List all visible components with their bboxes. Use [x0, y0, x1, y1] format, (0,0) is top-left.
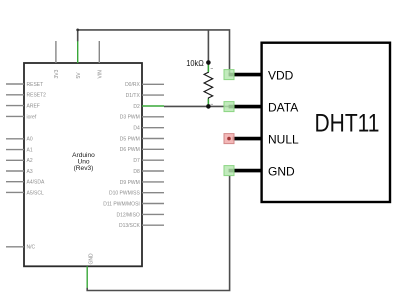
junction node at resistor top	[206, 60, 211, 65]
svg-text:D7: D7	[133, 158, 140, 164]
pin D8 (Arduino right)	[133, 169, 164, 175]
pin A0 (Arduino left)	[6, 137, 33, 143]
svg-text:5V: 5V	[76, 72, 82, 79]
svg-text:RESET2: RESET2	[27, 93, 47, 99]
svg-text:ioref: ioref	[27, 114, 37, 120]
pin A4/SDA (Arduino left)	[6, 180, 45, 186]
pin VIN (Arduino top)	[98, 41, 104, 79]
svg-text:D10 PWM/SS: D10 PWM/SS	[109, 191, 141, 197]
pin D11 PWM/MOSI (Arduino right)	[103, 201, 164, 207]
pin D10 PWM/SS (Arduino right)	[109, 191, 164, 197]
pin GND (DHT11)	[224, 164, 295, 178]
svg-text:D9 PWM: D9 PWM	[120, 180, 140, 186]
svg-text:D5 PWM: D5 PWM	[120, 136, 140, 142]
svg-text:10kΩ: 10kΩ	[186, 58, 204, 68]
svg-text:RESET: RESET	[27, 82, 44, 88]
Arduino Uno box U1	[24, 63, 142, 266]
pin A5/SCL (Arduino left)	[6, 190, 44, 196]
pin ioref (Arduino left)	[6, 114, 37, 120]
pin VDD (DHT11)	[224, 68, 294, 82]
wire 5V to VDD (net 5V)	[78, 30, 230, 75]
pin RESET2 (Arduino left)	[6, 93, 46, 99]
pin A3 (Arduino left)	[6, 169, 33, 175]
svg-text:A5/SCL: A5/SCL	[27, 190, 44, 196]
pin A1 (Arduino left)	[6, 148, 33, 154]
svg-text:GND: GND	[268, 164, 295, 178]
svg-text:D3 PWM: D3 PWM	[120, 115, 140, 121]
svg-text:VDD: VDD	[268, 68, 294, 82]
wire resistor top to 5V net	[207, 30, 209, 63]
svg-text:DHT11: DHT11	[315, 110, 380, 138]
pin 5V (Arduino top)	[76, 41, 82, 79]
svg-text:DATA: DATA	[268, 100, 298, 114]
pin GND (Arduino bottom)	[87, 253, 94, 288]
pin DATA (DHT11)	[224, 100, 298, 114]
resistor pin-number marks	[211, 68, 213, 70]
svg-text:A2: A2	[27, 158, 33, 164]
pin D13/SCK (Arduino right)	[119, 223, 164, 229]
pin D12/MISO (Arduino right)	[116, 212, 164, 218]
svg-text:D1/TX: D1/TX	[126, 93, 141, 99]
svg-text:A3: A3	[27, 169, 33, 175]
svg-text:GND: GND	[89, 253, 95, 265]
svg-text:D11 PWM/MOSI: D11 PWM/MOSI	[103, 201, 140, 207]
wire GND to GND (net GND)	[87, 175, 229, 291]
resistor R1 10k	[204, 63, 213, 107]
svg-text:(Rev3): (Rev3)	[74, 165, 94, 172]
bendpoint at 5V corner	[76, 29, 79, 32]
pin 3V3 (Arduino top)	[54, 41, 60, 79]
wire D2 to DATA (net DATA)	[164, 105, 230, 107]
svg-text:D8: D8	[133, 169, 140, 175]
junction node at resistor bottom / D2-DATA net	[206, 104, 211, 109]
svg-text:D2: D2	[133, 104, 140, 110]
svg-text:D4: D4	[133, 126, 140, 132]
svg-text:A0: A0	[27, 137, 33, 143]
pin D4 (Arduino right)	[133, 126, 164, 132]
svg-text:A1: A1	[27, 148, 33, 154]
pin NULL (DHT11)	[224, 132, 299, 146]
pin AREF (Arduino left)	[6, 104, 40, 110]
pin D2 (Arduino right)	[133, 104, 164, 110]
pin D3 PWM (Arduino right)	[120, 115, 164, 121]
DHT11 box U2	[262, 43, 390, 202]
pin D6 PWM (Arduino right)	[120, 147, 164, 153]
svg-text:3V3: 3V3	[54, 69, 60, 78]
pin A2 (Arduino left)	[6, 158, 33, 164]
svg-text:D6 PWM: D6 PWM	[120, 147, 140, 153]
svg-text:D13/SCK: D13/SCK	[119, 223, 141, 229]
svg-text:D0/RX: D0/RX	[125, 82, 140, 88]
pin D0/RX (Arduino right)	[125, 82, 164, 88]
pin D7 (Arduino right)	[133, 158, 164, 164]
svg-text:N/C: N/C	[27, 245, 36, 251]
svg-text:AREF: AREF	[27, 104, 40, 110]
svg-text:NULL: NULL	[268, 132, 299, 146]
svg-text:D12/MISO: D12/MISO	[116, 212, 139, 218]
pin N/C (Arduino left)	[6, 245, 36, 251]
Arduino Uno (Rev3) label	[72, 152, 95, 172]
pin D9 PWM (Arduino right)	[120, 180, 164, 186]
pin RESET (Arduino left)	[6, 82, 43, 88]
svg-text:A4/SDA: A4/SDA	[27, 180, 45, 186]
svg-text:VIN: VIN	[98, 70, 104, 79]
pin D1/TX (Arduino right)	[126, 93, 164, 99]
pin D5 PWM (Arduino right)	[120, 136, 164, 142]
